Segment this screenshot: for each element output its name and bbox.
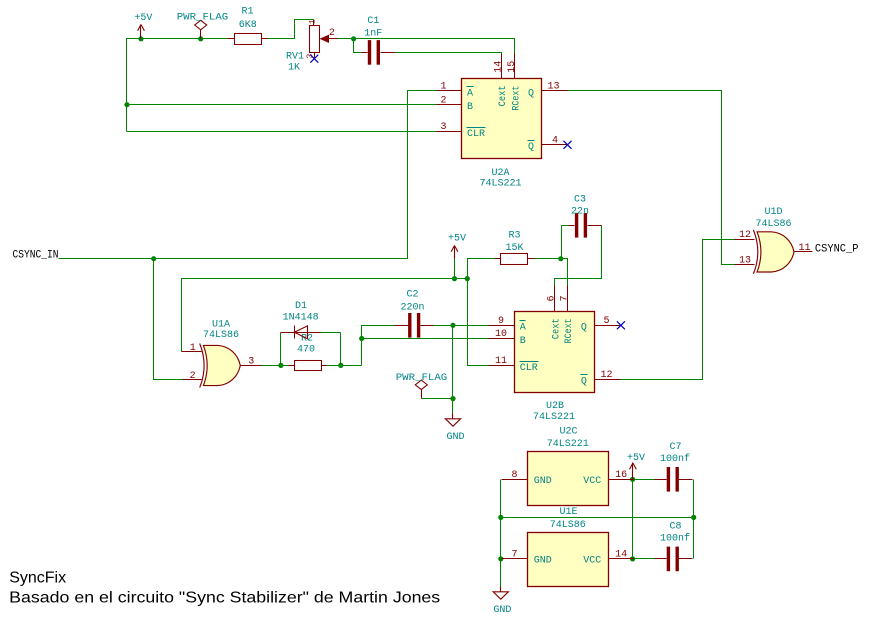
wire VCC riser pin16 to pin14 (632, 480, 634, 559)
svg-text:74LS221: 74LS221 (533, 412, 575, 423)
capacitor C3 (575, 213, 578, 238)
wire C3 right to U2B pin6 Cext (555, 226, 602, 286)
ground GND middle (452, 414, 454, 419)
wire C3 left riser (561, 226, 563, 259)
U2A pin 15 RCext stub (514, 54, 516, 79)
wire GND rail bottom (501, 517, 694, 519)
svg-text:A: A (520, 323, 526, 334)
svg-text:220n: 220n (400, 303, 424, 314)
U2B pin 6 Cext stub (554, 286, 556, 312)
svg-text:15: 15 (507, 61, 518, 73)
U1A pin 3 output (241, 365, 262, 367)
svg-text:U1D: U1D (764, 207, 782, 218)
svg-text:Basado en el circuito "Sync St: Basado en el circuito "Sync Stabilizer" … (9, 589, 440, 606)
power unit U2C body (528, 452, 609, 506)
svg-text:5: 5 (603, 316, 609, 327)
no-connect RV1 pin 3 (310, 55, 318, 63)
wire RV1 wiper to U2A pin15 (338, 39, 515, 55)
wire C8 right riser (693, 518, 695, 559)
wire U2A Q pin13 to U1D pin13 (558, 91, 735, 265)
junction riser C2-left/B (361, 326, 363, 339)
wire pin14 to C8 (629, 558, 655, 560)
svg-text:16: 16 (615, 470, 627, 481)
wire D1 left riser (280, 333, 282, 366)
wire node to U2B pin10 B (362, 338, 489, 340)
svg-text:RV1: RV1 (286, 51, 304, 62)
svg-text:3: 3 (248, 356, 254, 367)
svg-text:1: 1 (309, 19, 318, 24)
svg-text:9: 9 (498, 316, 504, 327)
svg-text:CSYNC_P: CSYNC_P (815, 244, 859, 256)
power +5V symbol 1 (140, 25, 142, 39)
junction GND rail left top (498, 515, 503, 520)
junction CSYNC_IN tee (151, 256, 156, 261)
svg-text:CLR: CLR (520, 363, 538, 374)
svg-text:470: 470 (297, 345, 315, 356)
svg-text:U2A: U2A (491, 168, 509, 179)
svg-text:2: 2 (440, 95, 446, 106)
svg-text:GND: GND (534, 476, 552, 487)
wire +5V symbol 2 stem (454, 259, 456, 279)
svg-text:U1E: U1E (559, 507, 577, 518)
resistor R1 (235, 34, 262, 45)
svg-text:14: 14 (493, 61, 504, 73)
svg-text:Cext: Cext (551, 318, 562, 339)
power flag PWR_FLAG 2 (415, 380, 427, 390)
svg-text:7: 7 (511, 550, 517, 561)
svg-text:R3: R3 (508, 231, 520, 242)
svg-text:U2B: U2B (546, 401, 564, 412)
svg-text:7: 7 (559, 295, 570, 301)
wire GND rail bottom left riser (500, 480, 502, 587)
resistor R2 (295, 361, 322, 371)
svg-text:CLR: CLR (467, 129, 485, 140)
svg-text:4: 4 (552, 135, 558, 146)
diode D1 (281, 332, 321, 334)
power unit U1E body (528, 533, 609, 587)
svg-text:74LS221: 74LS221 (479, 179, 521, 190)
wire +5V rail top (127, 39, 228, 132)
svg-text:U2C: U2C (559, 427, 577, 438)
svg-text:1K: 1K (288, 62, 300, 73)
U2B pin 9 A (489, 325, 515, 327)
resistor R3 (501, 254, 528, 265)
svg-text:8: 8 (511, 470, 517, 481)
wire R3 right to C3 junction (535, 258, 561, 260)
U2B pin 10 B (489, 338, 515, 340)
U1D pin 12 (735, 239, 755, 241)
junction U1A out / D1 R2 left (278, 363, 283, 368)
wire PWR_FLAG 2 to GND node (422, 398, 453, 400)
U1E pin 14 VCC (609, 558, 634, 560)
wire +5V rail to R3 (468, 259, 495, 279)
svg-text:1: 1 (440, 82, 446, 93)
junction GND rail right (691, 515, 696, 520)
svg-text:B: B (467, 102, 473, 113)
svg-text:13: 13 (739, 256, 751, 267)
svg-text:R1: R1 (241, 7, 253, 18)
U2A pin 4 Qbar (542, 144, 568, 146)
svg-text:C3: C3 (574, 195, 586, 206)
svg-text:C1: C1 (367, 16, 379, 27)
wire +5V second rail (182, 279, 468, 352)
svg-text:12: 12 (600, 370, 612, 381)
wire +5V3 to C7 (629, 479, 655, 481)
junction B wire tee (124, 102, 129, 107)
U2A pin 13 Q (542, 90, 568, 92)
monostable U2B body (515, 312, 595, 393)
svg-text:22n: 22n (571, 207, 589, 218)
U2A pin 1 A (437, 90, 462, 92)
svg-text:74LS221: 74LS221 (547, 439, 589, 450)
U1A pin 1 (182, 351, 202, 353)
junction C2 right / pin9 / GND (450, 323, 455, 328)
svg-text:6K8: 6K8 (239, 20, 257, 31)
svg-text:12: 12 (739, 230, 751, 241)
svg-text:74LS86: 74LS86 (203, 330, 239, 341)
svg-text:CSYNC_IN: CSYNC_IN (13, 250, 59, 262)
svg-text:Q: Q (581, 323, 587, 334)
svg-text:PWR_FLAG: PWR_FLAG (396, 373, 448, 384)
svg-text:Cext: Cext (498, 85, 509, 106)
power +5V symbol 3 (632, 463, 634, 480)
xor gate U1D (757, 232, 794, 272)
U2B pin 11 CLR (489, 365, 515, 367)
svg-text:C8: C8 (669, 522, 681, 533)
power +5V symbol 2 (454, 246, 456, 259)
junction +5V stem 1 (138, 36, 143, 41)
wire CSYNC_IN to U1A pin2 (154, 259, 183, 380)
svg-text:14: 14 (615, 549, 627, 560)
svg-text:GND: GND (534, 555, 552, 566)
svg-text:11: 11 (495, 356, 507, 367)
svg-text:VCC: VCC (583, 476, 601, 487)
U1D pin 13 (735, 264, 755, 266)
junction RV1 wiper / C1 / pin15 (351, 36, 356, 41)
wire C7 right riser (693, 480, 695, 518)
svg-text:RCext: RCext (564, 318, 575, 343)
svg-text:C2: C2 (406, 290, 418, 301)
wire C1 right to U2A pin14 (395, 53, 502, 55)
junction VCC pin16 (630, 477, 635, 482)
svg-text:Q: Q (528, 88, 534, 99)
wire CSYNC_IN net (59, 91, 437, 259)
svg-text:100nf: 100nf (660, 533, 690, 545)
svg-text:+5V: +5V (627, 453, 645, 464)
U2C pin 8 GND (502, 479, 528, 481)
power flag PWR_FLAG 1 (195, 20, 207, 30)
svg-text:10: 10 (495, 329, 507, 340)
svg-text:D1: D1 (295, 301, 307, 312)
U2A pin 14 Cext stub (501, 54, 503, 79)
svg-text:PWR_FLAG: PWR_FLAG (177, 13, 229, 24)
svg-text:74LS86: 74LS86 (755, 219, 791, 230)
wire D1 right riser (340, 333, 342, 366)
junction VCC pin14 (630, 556, 635, 561)
capacitor C7 (667, 467, 670, 492)
svg-text:VCC: VCC (583, 555, 601, 566)
svg-text:A: A (467, 88, 473, 99)
wire U1A output node (262, 365, 289, 367)
U1D pin 11 output (795, 251, 813, 253)
wire C2 right to U2B pin9 (434, 325, 489, 327)
U1A pin 2 (183, 379, 202, 381)
no-connect U2A pin 4 (564, 141, 572, 149)
svg-text:15K: 15K (505, 243, 523, 254)
junction R3 / C3 / pin7 (558, 256, 563, 261)
capacitor C1 (368, 40, 371, 65)
wire U2B Qbar pin12 to U1D pin12 (621, 240, 735, 380)
svg-text:+5V: +5V (448, 234, 466, 245)
wire D1 right lead to riser (321, 332, 341, 334)
junction C2 left / B wire (359, 336, 364, 341)
svg-text:11: 11 (798, 243, 810, 254)
wire C3 left lead (562, 225, 569, 227)
svg-text:C7: C7 (669, 442, 681, 453)
svg-text:Q: Q (581, 377, 587, 388)
potentiometer RV1 (310, 26, 320, 53)
wire C2 right down to GND node (452, 326, 454, 414)
svg-text:2: 2 (329, 28, 335, 39)
ground GND bottom left (500, 587, 502, 592)
svg-text:+5V: +5V (134, 13, 152, 24)
U2B pin 5 Q (595, 325, 621, 327)
svg-text:13: 13 (547, 82, 559, 93)
junction D1 R2 right (338, 363, 343, 368)
wire +5V rail to U2B pin11 CLR (468, 279, 489, 366)
junction R3 CLR tee (465, 276, 470, 281)
svg-text:74LS86: 74LS86 (550, 520, 586, 531)
U2B pin 7 RCext stub (567, 286, 569, 312)
wire C3 junction jog to U2B pin7 (561, 259, 568, 286)
svg-text:RCext: RCext (512, 86, 523, 111)
svg-text:1N4148: 1N4148 (283, 313, 319, 324)
svg-text:B: B (520, 336, 526, 347)
svg-text:1nF: 1nF (364, 29, 382, 40)
U1E pin 7 GND (502, 558, 528, 560)
no-connect U2B pin 5 (617, 321, 625, 329)
U2B pin 12 Qbar (595, 379, 621, 381)
svg-text:SyncFix: SyncFix (9, 569, 66, 586)
svg-text:GND: GND (493, 605, 511, 616)
U2A pin 3 CLR (437, 131, 462, 133)
wire U2A pin3 CLR net (127, 131, 437, 133)
junction GND rail left pin7 (498, 556, 503, 561)
xor gate U1A (203, 345, 240, 385)
junction +5V stem 2 (452, 276, 457, 281)
svg-text:GND: GND (446, 432, 464, 443)
svg-text:1: 1 (190, 343, 196, 354)
wire D1 R2 right node (327, 365, 362, 367)
wire node to C2 left (362, 326, 395, 366)
U2C pin 16 VCC (609, 479, 634, 481)
svg-text:2: 2 (190, 371, 196, 382)
svg-text:Q: Q (528, 142, 534, 153)
wire R1 to RV1 top pin (268, 20, 314, 39)
svg-text:U1A: U1A (212, 320, 230, 331)
wire C1 left branch (354, 39, 362, 53)
svg-text:3: 3 (440, 122, 446, 133)
capacitor C2 (408, 313, 411, 338)
junction PWR_FLAG 2 / GND (450, 396, 455, 401)
junction PWR_FLAG 1 (198, 36, 203, 41)
svg-text:6: 6 (547, 295, 558, 301)
svg-text:100nf: 100nf (660, 453, 690, 465)
wire U2A pin2 B net (127, 104, 437, 106)
U2A pin 2 B (437, 104, 462, 106)
monostable U2A body (462, 79, 542, 159)
capacitor C8 (667, 547, 670, 572)
